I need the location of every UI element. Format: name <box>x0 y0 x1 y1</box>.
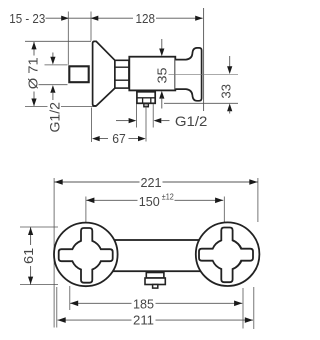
ext line G12 square bottom <box>39 84 68 86</box>
right cross handle <box>199 228 253 283</box>
dim 33 lower line <box>229 111 231 114</box>
ext line 150 right <box>223 197 225 223</box>
svg-text:221: 221 <box>141 175 162 190</box>
arrow up dia71 <box>31 42 36 50</box>
left cross handle <box>59 228 113 283</box>
dim text 211 <box>132 314 156 327</box>
left handle hub <box>71 240 102 271</box>
dim 35 lower line <box>161 98 163 109</box>
G12 outlet left tail <box>116 120 129 122</box>
dim 33 upper line <box>229 56 231 67</box>
hex nut flat line upper <box>115 66 129 68</box>
right handle hub <box>212 239 243 270</box>
dim line G12 below <box>52 92 54 100</box>
ext line 211 left <box>56 287 58 328</box>
arrow down 61 <box>28 277 33 285</box>
arrow left at bell front <box>91 16 99 21</box>
svg-text:G1/2: G1/2 <box>175 113 208 129</box>
ext line 61 bottom <box>20 284 58 286</box>
bottom outlet nipple <box>153 285 158 289</box>
dim line dia71 <box>33 42 35 106</box>
arrow left 150 <box>86 198 94 204</box>
arrow right 150 <box>215 198 223 204</box>
svg-text:61: 61 <box>21 248 36 264</box>
svg-text:33: 33 <box>219 84 233 99</box>
arrow left 221 <box>55 179 63 185</box>
dim line 67 <box>99 138 139 140</box>
left handle circle <box>54 223 118 287</box>
svg-text:15 - 23: 15 - 23 <box>9 11 45 26</box>
outlet hex flat right <box>150 98 152 104</box>
svg-text:185: 185 <box>133 296 154 311</box>
mixer body bar <box>95 240 220 271</box>
ext line 211 right <box>253 287 255 329</box>
hex nut flat line lower <box>115 79 129 81</box>
ext line bell front <box>90 12 92 41</box>
bottom outlet lower <box>145 278 165 285</box>
ext line 185 left <box>69 286 71 310</box>
dim line G12 above <box>52 53 54 59</box>
svg-text:35: 35 <box>155 68 170 84</box>
dim line 61 <box>30 227 32 285</box>
ext line outlet G12 right <box>152 104 154 128</box>
dim line 185 <box>70 302 242 304</box>
arrow up 61 <box>28 227 33 235</box>
svg-text:±12: ±12 <box>162 192 174 202</box>
svg-text:211: 211 <box>133 313 154 328</box>
ext line 185 right <box>242 288 244 329</box>
arrow left 185 <box>70 301 78 307</box>
arrow right G12 outlet <box>129 118 137 123</box>
square hub G12 spigot <box>69 66 88 82</box>
dim text 221 <box>140 176 163 189</box>
arrow down G12 <box>50 57 55 65</box>
ext line dia71 top <box>25 40 91 42</box>
outlet hex <box>137 92 155 104</box>
bottom outlet upper <box>146 273 164 279</box>
svg-text:Ø 71: Ø 71 <box>26 57 41 89</box>
dim line 211 <box>58 319 254 321</box>
svg-text:G1/2: G1/2 <box>46 102 62 133</box>
svg-text:128: 128 <box>136 11 156 26</box>
arrow down 35 <box>159 49 164 57</box>
dim 35 upper line <box>161 39 163 50</box>
arrow up 33 <box>227 104 232 112</box>
ext line 33 lower <box>164 102 238 104</box>
arrow down dia71 <box>31 99 36 107</box>
arrow right 221 <box>249 179 257 185</box>
arrow right 211 <box>245 317 253 323</box>
ext line G12 square top <box>45 64 68 66</box>
ext line 67 left <box>91 108 93 143</box>
ext line 61 top <box>20 226 58 228</box>
centerline <box>169 73 239 75</box>
dim text 150+-12 <box>138 193 175 208</box>
outlet hex flat left <box>142 98 144 104</box>
arrow right 185 <box>234 301 242 307</box>
arrow up G12 <box>50 85 55 93</box>
neck and wall flange <box>175 48 201 101</box>
dim line top <box>46 17 203 19</box>
arrow right at square front <box>61 16 69 21</box>
outlet centerline ext <box>145 104 147 142</box>
right handle circle <box>196 222 260 286</box>
arrow up 35 <box>159 91 164 99</box>
arrow left 67 <box>92 136 100 141</box>
arrow left 211 <box>58 317 66 323</box>
outlet nipple <box>144 104 148 107</box>
svg-text:67: 67 <box>112 131 126 146</box>
hex nut <box>115 60 129 88</box>
svg-text:150: 150 <box>139 194 160 209</box>
ext line square front <box>67 12 69 65</box>
arrow left G12 outlet <box>154 118 162 123</box>
ext line 221 right <box>257 178 259 222</box>
ext line outlet G12 left <box>136 104 138 128</box>
dim text 185 <box>132 297 156 310</box>
valve body <box>129 57 175 91</box>
ext line 150 left <box>85 197 87 223</box>
arrow down 33 <box>227 66 232 74</box>
handle bell <box>93 41 115 106</box>
dim line 221 <box>54 181 258 183</box>
arrow right at wall <box>195 16 203 21</box>
dim line 150 <box>86 199 223 201</box>
G12 outlet right tail <box>161 120 170 122</box>
ext line dia71 bottom <box>25 106 96 108</box>
ext line 221 left <box>53 178 55 328</box>
outlet divider <box>137 97 155 99</box>
arrow right 67 <box>138 136 146 141</box>
wall line <box>203 8 205 111</box>
